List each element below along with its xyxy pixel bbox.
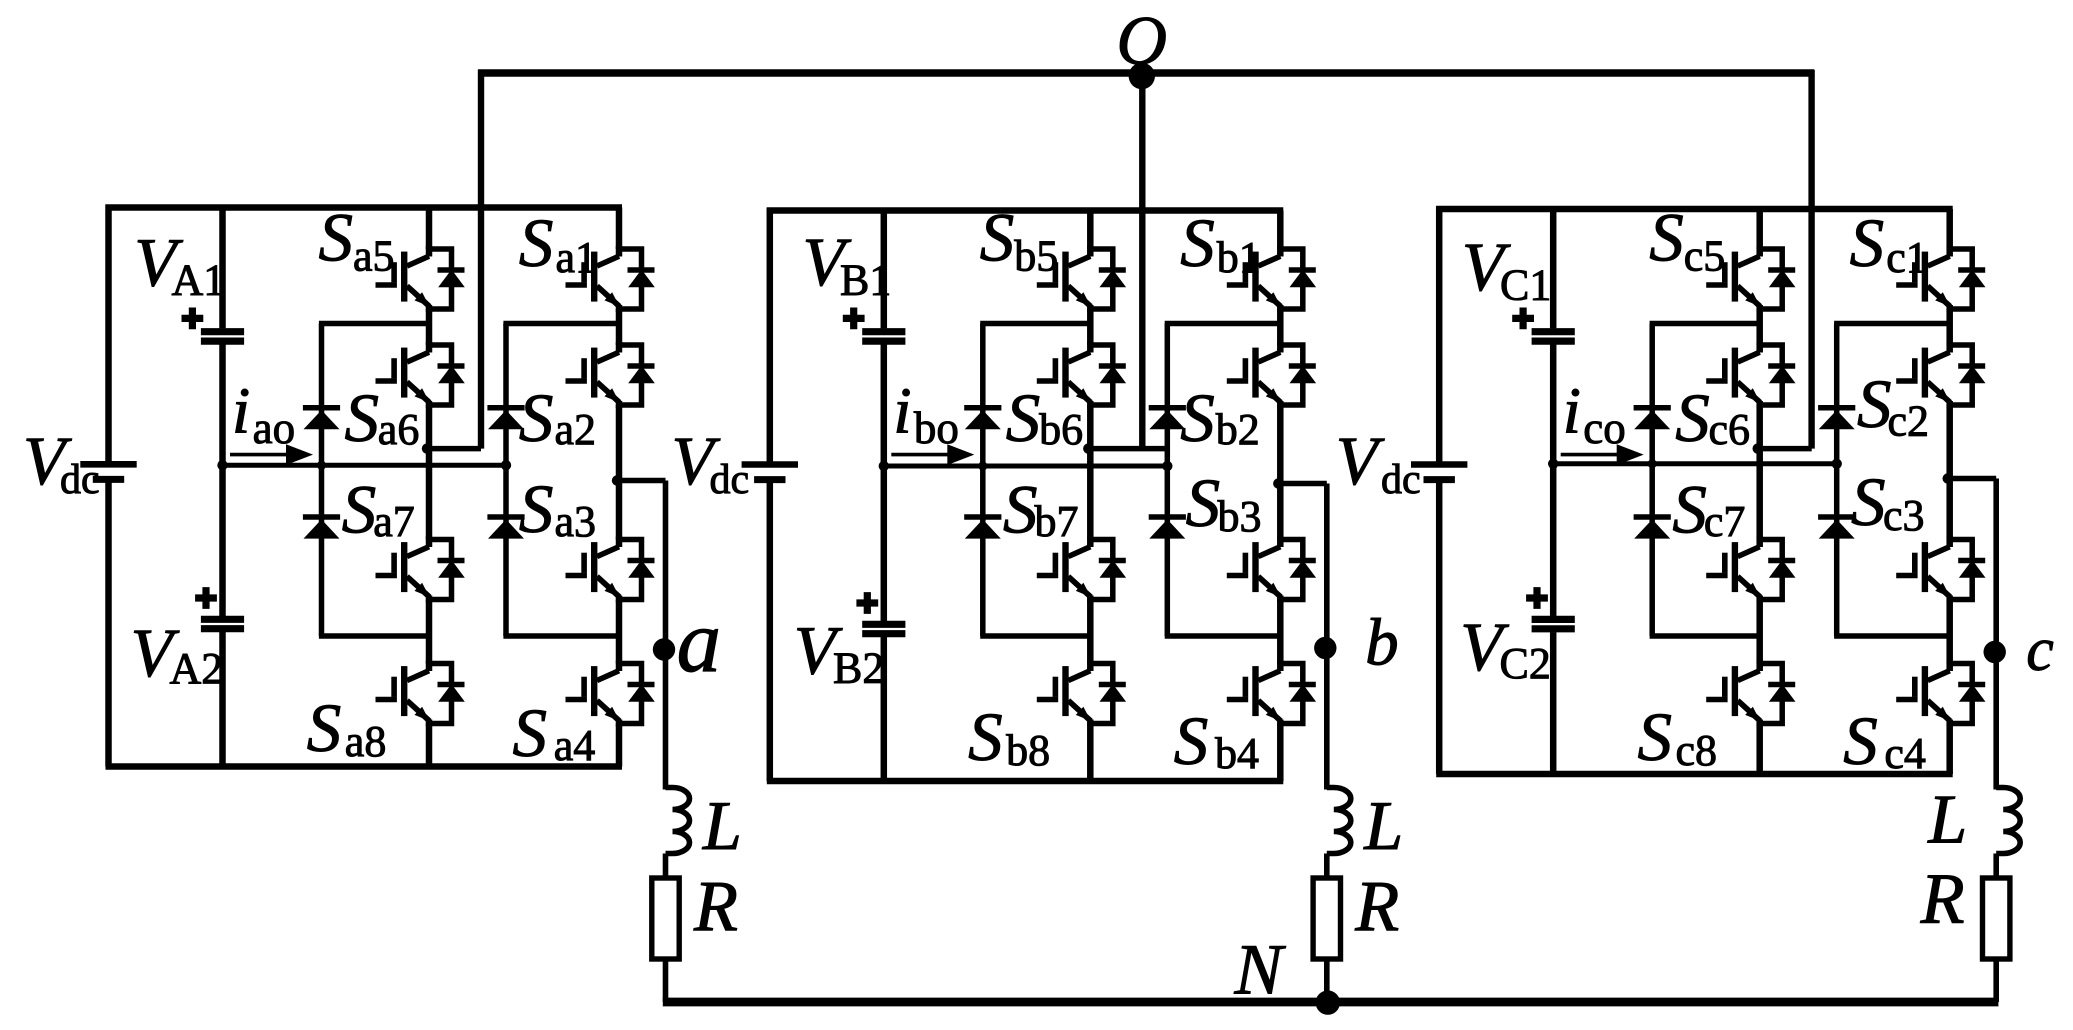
capacitor V_B1 — [862, 332, 905, 341]
svg-text:c7: c7 — [1704, 497, 1746, 546]
wire: rail between S_c7 and S_c8 — [1756, 600, 1763, 664]
polarity + mark — [856, 592, 878, 614]
svg-text:S: S — [519, 471, 554, 547]
label i_co — [1563, 375, 1626, 454]
svg-text:C2: C2 — [1500, 639, 1551, 688]
junction: cap midpoint to neutral (phase a) — [217, 460, 227, 470]
svg-text:a6: a6 — [378, 405, 420, 454]
svg-text:c: c — [2026, 616, 2054, 684]
svg-text:b4: b4 — [1215, 729, 1259, 778]
svg-text:S: S — [1638, 699, 1673, 775]
label S_c7 — [1672, 471, 1745, 547]
wire: phase a box bottom edge — [106, 763, 623, 770]
svg-text:c1: c1 — [1886, 233, 1928, 282]
inductor L (phase b) — [1327, 788, 1351, 854]
svg-text:S: S — [1180, 380, 1215, 456]
wire: rail below S_a4 — [616, 724, 623, 767]
label S_b6 — [1006, 380, 1083, 456]
junction: clamp branch 1 to neutral (phase b) — [978, 461, 987, 470]
junction: clamp branch 2 to neutral (phase a) — [501, 460, 511, 470]
label S_b4 — [1174, 703, 1259, 779]
label S_b1 — [1180, 205, 1261, 282]
wire: clamp branch 2 vertical (phase c) — [1834, 324, 1840, 637]
transistor S_b8 (IGBT with antiparallel diode) — [1037, 661, 1126, 727]
wire: midpoint stub to O drop (phase a) — [427, 446, 481, 452]
transistor S_c3 (IGBT with antiparallel diode) — [1896, 537, 1985, 603]
wire: output tap horizontal (phase c) — [1948, 476, 1997, 482]
svg-text:C1: C1 — [1500, 261, 1551, 310]
svg-text:dc: dc — [60, 457, 100, 503]
wire: clamp branch 2 bottom link (phase a) — [503, 633, 619, 639]
wire: bottom neutral bus N — [663, 998, 1999, 1007]
svg-text:S: S — [342, 471, 377, 547]
wire: phase c box left edge lower — [1436, 480, 1443, 774]
node c junction dot — [1984, 641, 2006, 663]
wire: phase b box bottom edge — [767, 778, 1284, 785]
wire: midpoint stub to O drop (phase c) — [1758, 446, 1812, 452]
wire: neutral rail from cap midpoint to clamp branch (phase b) — [884, 464, 1168, 469]
svg-text:S: S — [1006, 380, 1041, 456]
svg-text:c5: c5 — [1684, 232, 1726, 281]
clamp diode Dc2 (upper right clamp) — [1818, 408, 1855, 430]
wire: inner column rail segments (phase b) — [1087, 211, 1094, 250]
svg-text:S: S — [1672, 471, 1707, 547]
svg-text:c4: c4 — [1884, 729, 1926, 778]
svg-text:S: S — [307, 690, 342, 766]
clamp diode Db7 (lower left clamp) — [964, 517, 1001, 539]
svg-text:a4: a4 — [554, 721, 596, 770]
svg-text:b6: b6 — [1039, 405, 1083, 454]
svg-text:S: S — [1850, 205, 1885, 281]
label V_dc phase c — [1336, 423, 1421, 503]
wire: rail below S_c4 — [1946, 724, 1953, 775]
svg-text:i: i — [893, 375, 911, 448]
label S_c8 — [1638, 699, 1718, 775]
wire: clamp branch 2 vertical (phase b) — [1165, 324, 1171, 637]
svg-text:S: S — [1186, 465, 1221, 541]
wire: output tap horizontal (phase b) — [1278, 481, 1327, 487]
capacitor V_A1 — [201, 332, 244, 341]
wire: clamp branch 1 vertical (phase b) — [980, 324, 986, 637]
svg-text:b: b — [1365, 606, 1399, 680]
wire: output tap horizontal (phase a) — [617, 478, 666, 484]
label S_c1 — [1850, 205, 1928, 282]
wire: phase c box bottom edge — [1436, 771, 1953, 778]
junction: clamp branch 1 to neutral (phase a) — [317, 461, 326, 470]
label S_b2 — [1180, 380, 1260, 456]
wire: between L and R (phase c) — [1993, 854, 1999, 881]
capacitor V_A2 — [201, 619, 244, 628]
label S_a7 — [342, 471, 415, 547]
label S_c5 — [1649, 199, 1725, 280]
wire: outer column rail segments (phase a) — [616, 208, 623, 250]
wire: R to N bus (phase a) — [663, 959, 669, 1002]
junction: inner leg midpoint to O (phase c) — [1753, 443, 1763, 453]
transistor S_c6 (IGBT with antiparallel diode) — [1706, 342, 1795, 408]
wire: capacitor branch bottom (phase c) — [1550, 632, 1557, 774]
wire: clamp branch 1 bottom link (phase b) — [980, 633, 1090, 639]
label i_bo — [893, 375, 959, 454]
svg-text:S: S — [1675, 380, 1710, 456]
junction: inner leg midpoint to O (phase a) — [422, 443, 432, 453]
capacitor V_C1 — [1532, 332, 1575, 341]
resistor R (phase b) — [1313, 878, 1340, 959]
clamp diode Dc7 (lower left clamp) — [1634, 517, 1671, 539]
wire: neutral rail from cap midpoint to clamp branch (phase c) — [1553, 461, 1837, 466]
clamp diode Da5 (upper left clamp) — [303, 408, 340, 430]
svg-text:S: S — [1851, 464, 1886, 540]
svg-text:b3: b3 — [1218, 492, 1262, 541]
transistor S_a7 (IGBT with antiparallel diode) — [376, 537, 465, 603]
svg-text:L: L — [702, 788, 742, 865]
DC source V_dc (a) (battery) — [80, 464, 136, 479]
label S_b3 — [1186, 465, 1262, 541]
svg-text:S: S — [519, 205, 554, 281]
wire: clamp branch 1 bottom link (phase a) — [319, 633, 429, 639]
node a junction dot — [653, 638, 675, 660]
transistor S_c8 (IGBT with antiparallel diode) — [1706, 661, 1795, 727]
svg-text:S: S — [1174, 703, 1209, 779]
wire: rail between S_c3 and S_c4 — [1946, 600, 1953, 664]
wire: capacitor branch middle (phase b) — [881, 344, 888, 621]
node b junction dot — [1314, 637, 1336, 659]
inductor L (phase c) — [1996, 788, 2020, 854]
wire: neutral rail from cap midpoint to clamp branch (phase a) — [223, 463, 507, 468]
svg-text:i: i — [232, 375, 250, 448]
label S_c6 — [1675, 380, 1750, 456]
wire: capacitor branch bottom (phase a) — [219, 632, 226, 767]
svg-text:S: S — [1649, 199, 1684, 275]
wire: clamp branch 1 vertical (phase c) — [1649, 324, 1655, 637]
transistor S_a1 (IGBT with antiparallel diode) — [566, 246, 655, 312]
wire: output leg vertical (phase b) — [1324, 484, 1330, 790]
label S_a3 — [519, 471, 596, 547]
svg-text:ao: ao — [253, 403, 295, 453]
svg-text:b5: b5 — [1014, 232, 1058, 281]
wire: phase b box top edge (+ rail) — [767, 207, 1284, 214]
transistor S_a2 (IGBT with antiparallel diode) — [566, 342, 655, 408]
wire: clamp branch 1 top link (phase b) — [980, 321, 1090, 327]
wire: rail between S_c5 and S_c6 — [1756, 309, 1763, 345]
svg-text:c3: c3 — [1883, 491, 1925, 540]
svg-text:S: S — [519, 380, 554, 456]
label i_ao — [232, 375, 295, 454]
junction: output tap (phase b) — [1273, 478, 1283, 488]
wire: phase b box left edge lower — [767, 480, 774, 781]
svg-text:B2: B2 — [833, 644, 884, 693]
current arrow i_bo — [891, 444, 974, 465]
label V_dc phase b — [672, 423, 750, 503]
polarity + mark — [1512, 308, 1534, 330]
clamp diode Dc3 (lower right clamp) — [1818, 517, 1855, 539]
wire: capacitor branch bottom (phase b) — [881, 637, 888, 781]
clamp diode Da3 (lower right clamp) — [487, 517, 524, 539]
wire: top neutral bus O — [478, 69, 1814, 76]
svg-text:a: a — [677, 593, 722, 691]
svg-text:a8: a8 — [345, 717, 387, 766]
DC source V_dc (c) (battery) — [1411, 465, 1467, 480]
svg-text:S: S — [1843, 703, 1878, 779]
wire: rail below S_b8 — [1087, 724, 1094, 782]
svg-text:S: S — [513, 695, 548, 771]
wire: inner column rail segments (phase a) — [426, 208, 433, 250]
svg-text:L: L — [1927, 782, 1967, 859]
wire: phase c box left edge upper — [1436, 206, 1443, 465]
transistor S_c5 (IGBT with antiparallel diode) — [1706, 246, 1795, 312]
resistor R (phase a) — [652, 878, 679, 959]
transistor S_a6 (IGBT with antiparallel diode) — [376, 342, 465, 408]
node O junction dot — [1129, 63, 1155, 89]
wire: capacitor branch top (phase b) — [881, 211, 888, 329]
wire: R to N bus (phase c) — [1993, 959, 1999, 1002]
inductor L (phase a) — [666, 788, 690, 854]
label V_A2 — [131, 615, 224, 693]
clamp diode Db3 (lower right clamp) — [1149, 517, 1186, 539]
label S_c4 — [1843, 703, 1926, 779]
wire: rail from S_b2 to output tap and S_b3 — [1277, 405, 1284, 540]
wire: clamp branch 1 vertical (phase a) — [319, 324, 325, 637]
transistor S_b1 (IGBT with antiparallel diode) — [1227, 246, 1316, 312]
wire: clamp branch 1 top link (phase a) — [319, 321, 429, 327]
wire: phase a box top edge (+ rail) — [106, 204, 623, 211]
capacitor V_C2 — [1532, 619, 1575, 628]
wire: O-bus drop to phase a midpoint — [478, 70, 484, 449]
svg-text:V: V — [1336, 423, 1385, 499]
wire: O-bus drop to phase c midpoint — [1808, 70, 1814, 449]
wire: clamp branch 2 top link (phase a) — [503, 321, 619, 327]
label S_c2 — [1857, 366, 1929, 446]
polarity + mark — [843, 308, 865, 330]
svg-text:i: i — [1563, 375, 1581, 448]
svg-text:A1: A1 — [172, 256, 226, 305]
wire: capacitor branch middle (phase c) — [1550, 344, 1557, 616]
label S_b7 — [1003, 471, 1079, 547]
wire: capacitor branch middle (phase a) — [219, 344, 226, 616]
transistor S_c4 (IGBT with antiparallel diode) — [1896, 661, 1985, 727]
svg-text:S: S — [1003, 471, 1038, 547]
svg-text:a5: a5 — [353, 232, 395, 281]
wire: midpoint stub to O drop (phase b) — [1088, 446, 1167, 452]
svg-text:c2: c2 — [1888, 397, 1930, 446]
wire: between L and R (phase b) — [1324, 854, 1330, 881]
wire: clamp branch 1 bottom link (phase c) — [1650, 633, 1760, 639]
junction: clamp branch 1 to neutral (phase c) — [1648, 459, 1657, 468]
label V_B2 — [794, 613, 885, 693]
svg-text:a2: a2 — [555, 405, 597, 454]
junction: cap midpoint to neutral (phase b) — [879, 461, 889, 471]
junction: cap midpoint to neutral (phase c) — [1548, 459, 1558, 469]
svg-text:B1: B1 — [840, 256, 891, 305]
label S_a8 — [307, 690, 387, 766]
wire: rail between S_a3 and S_a4 — [616, 600, 623, 664]
svg-text:O: O — [1117, 3, 1168, 80]
wire: clamp branch 2 bottom link (phase c) — [1834, 633, 1950, 639]
wire: phase b box left edge upper — [767, 208, 774, 465]
junction: clamp branch 2 to neutral (phase c) — [1832, 459, 1842, 469]
svg-text:b8: b8 — [1006, 726, 1050, 775]
label V_C2 — [1460, 609, 1551, 688]
svg-text:S: S — [345, 380, 380, 456]
wire: phase c box top edge (+ rail) — [1436, 206, 1953, 213]
svg-text:N: N — [1234, 930, 1287, 1010]
wire: rail below S_c8 — [1756, 724, 1763, 775]
label S_a5 — [319, 199, 395, 280]
wire: capacitor branch top (phase a) — [219, 208, 226, 329]
wire: rail from S_c2 to output tap and S_c3 — [1946, 405, 1953, 540]
wire: clamp branch 1 top link (phase c) — [1650, 321, 1760, 327]
wire: rail between S_b5 and S_b6 — [1087, 309, 1094, 345]
wire: clamp branch 2 top link (phase b) — [1165, 321, 1281, 327]
svg-text:S: S — [968, 699, 1003, 775]
clamp diode Db5 (upper left clamp) — [964, 408, 1001, 430]
svg-text:bo: bo — [914, 403, 959, 453]
transistor S_b7 (IGBT with antiparallel diode) — [1037, 537, 1126, 603]
wire: rail below S_a8 — [426, 724, 433, 767]
svg-text:a1: a1 — [556, 233, 598, 282]
wire: capacitor branch top (phase c) — [1550, 209, 1557, 328]
svg-text:c6: c6 — [1709, 405, 1751, 454]
resistor R (phase c) — [1983, 878, 2010, 959]
svg-text:R: R — [693, 866, 738, 946]
svg-text:b2: b2 — [1216, 405, 1260, 454]
svg-text:R: R — [1920, 858, 1965, 938]
wire: output leg vertical (phase c) — [1993, 479, 1999, 790]
svg-text:A2: A2 — [170, 644, 224, 693]
svg-text:a7: a7 — [373, 497, 415, 546]
transistor S_b5 (IGBT with antiparallel diode) — [1037, 246, 1126, 312]
label S_b8 — [968, 699, 1050, 775]
label S_c3 — [1851, 464, 1925, 540]
svg-text:S: S — [319, 199, 354, 275]
junction: output tap (phase a) — [612, 475, 622, 485]
label S_a6 — [345, 380, 420, 456]
label S_a1 — [519, 205, 597, 282]
transistor S_b4 (IGBT with antiparallel diode) — [1227, 661, 1316, 727]
transistor S_c7 (IGBT with antiparallel diode) — [1706, 537, 1795, 603]
clamp diode Da2 (upper right clamp) — [487, 408, 524, 430]
wire: outer column rail segments (phase c) — [1946, 209, 1953, 249]
wire: O-bus drop to phase b midpoint — [1139, 70, 1145, 449]
polarity + mark — [1526, 587, 1548, 609]
wire: clamp branch 2 top link (phase c) — [1834, 321, 1950, 327]
wire: rail between S_b1 and S_b2 — [1277, 309, 1284, 345]
clamp diode Dc5 (upper left clamp) — [1634, 408, 1671, 430]
junction: clamp branch 2 to neutral (phase b) — [1162, 461, 1172, 471]
svg-text:R: R — [1354, 866, 1399, 946]
wire: rail between S_a5 and S_a6 — [426, 309, 433, 345]
wire: rail between S_c1 and S_c2 — [1946, 309, 1953, 345]
wire: rail between S_a7 and S_a8 — [426, 600, 433, 664]
wire: outer column rail segments (phase b) — [1277, 211, 1284, 250]
current arrow i_co — [1561, 444, 1644, 465]
current arrow i_ao — [230, 444, 313, 465]
wire: rail from S_c6 to midpoint and S_c7 — [1756, 405, 1763, 540]
wire: rail between S_b3 and S_b4 — [1277, 600, 1284, 664]
label V_dc phase a — [23, 423, 100, 503]
svg-text:a3: a3 — [555, 497, 597, 546]
transistor S_b2 (IGBT with antiparallel diode) — [1227, 342, 1316, 408]
svg-text:S: S — [1180, 205, 1215, 281]
transistor S_b3 (IGBT with antiparallel diode) — [1227, 537, 1316, 603]
svg-text:co: co — [1583, 403, 1625, 453]
svg-text:b7: b7 — [1035, 497, 1079, 546]
wire: phase a box left edge lower — [105, 479, 112, 766]
DC source V_dc (b) (battery) — [742, 465, 798, 480]
junction: inner leg midpoint to O (phase b) — [1083, 443, 1093, 453]
wire: rail from S_a6 to midpoint and S_a7 — [426, 405, 433, 540]
label S_a2 — [519, 380, 596, 456]
clamp diode Db2 (upper right clamp) — [1149, 408, 1186, 430]
wire: output leg vertical (phase a) — [663, 481, 669, 790]
label V_C1 — [1462, 229, 1551, 310]
transistor S_a3 (IGBT with antiparallel diode) — [566, 537, 655, 603]
transistor S_a8 (IGBT with antiparallel diode) — [376, 661, 465, 727]
wire: inner column rail segments (phase c) — [1756, 209, 1763, 249]
svg-text:S: S — [1857, 366, 1892, 442]
wire: clamp branch 2 bottom link (phase b) — [1165, 633, 1281, 639]
svg-text:b1: b1 — [1217, 233, 1261, 282]
transistor S_a5 (IGBT with antiparallel diode) — [376, 246, 465, 312]
svg-text:S: S — [980, 199, 1015, 275]
transistor S_c2 (IGBT with antiparallel diode) — [1896, 342, 1985, 408]
transistor S_b6 (IGBT with antiparallel diode) — [1037, 342, 1126, 408]
svg-text:dc: dc — [1381, 457, 1421, 503]
polarity + mark — [182, 308, 204, 330]
wire: R to N bus (phase b) — [1324, 959, 1330, 1002]
label V_B1 — [803, 224, 892, 304]
svg-text:dc: dc — [710, 457, 750, 503]
clamp diode Da7 (lower left clamp) — [303, 517, 340, 539]
wire: clamp branch 2 vertical (phase a) — [503, 324, 509, 637]
wire: rail below S_b4 — [1277, 724, 1284, 782]
svg-text:L: L — [1363, 788, 1403, 865]
node N junction dot — [1316, 990, 1340, 1014]
junction: output tap (phase c) — [1943, 473, 1953, 483]
wire: rail from S_a2 to output tap and S_a3 — [616, 405, 623, 540]
transistor S_c1 (IGBT with antiparallel diode) — [1896, 246, 1985, 312]
label V_A1 — [134, 224, 225, 304]
wire: rail from S_b6 to midpoint and S_b7 — [1087, 405, 1094, 540]
wire: rail between S_b7 and S_b8 — [1087, 600, 1094, 664]
label S_b5 — [980, 199, 1059, 280]
wire: phase a box left edge upper — [105, 205, 112, 465]
wire: rail between S_a1 and S_a2 — [616, 309, 623, 345]
svg-text:c8: c8 — [1676, 726, 1718, 775]
wire: between L and R (phase a) — [663, 854, 669, 881]
transistor S_a4 (IGBT with antiparallel diode) — [566, 661, 655, 727]
label S_a4 — [513, 695, 596, 771]
polarity + mark — [195, 587, 217, 609]
capacitor V_B2 — [862, 624, 905, 633]
